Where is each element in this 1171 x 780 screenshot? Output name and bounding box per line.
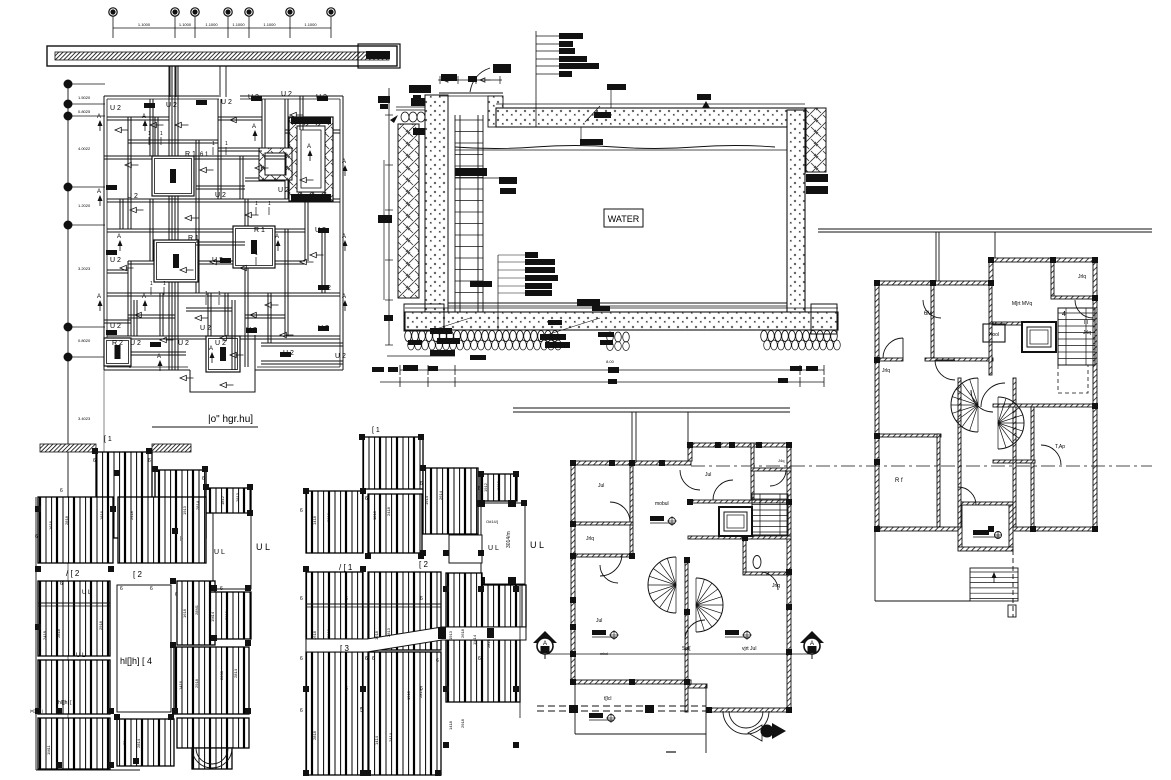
svg-text:U L: U L — [256, 542, 270, 552]
svg-text:1: 1 — [212, 141, 215, 147]
svg-text:R 1: R 1 — [188, 235, 199, 242]
svg-text:6: 6 — [420, 686, 423, 692]
svg-text:0.8020: 0.8020 — [78, 338, 91, 343]
svg-text:1: 1 — [148, 131, 151, 137]
svg-text:vjrt Jul: vjrt Jul — [742, 646, 756, 652]
svg-text:M[rt MVq: M[rt MVq — [1012, 301, 1032, 307]
svg-text:mobul: mobul — [655, 501, 669, 507]
svg-text:I·I: I·I — [1084, 320, 1088, 326]
svg-text:6: 6 — [436, 658, 439, 664]
svg-text:R 2: R 2 — [112, 340, 123, 347]
svg-text:U 2: U 2 — [127, 193, 138, 200]
svg-text:A: A — [252, 124, 256, 130]
svg-text:mbd: mbd — [600, 651, 608, 656]
svg-text:1: 1 — [150, 281, 153, 287]
svg-text:1618: 1618 — [182, 608, 187, 618]
svg-text:|o" hgr.hu]: |o" hgr.hu] — [208, 414, 253, 425]
svg-text:O#14/]: O#14/] — [486, 519, 498, 524]
svg-text:[ 1: [ 1 — [104, 436, 112, 443]
svg-text:1.1000: 1.1000 — [179, 22, 192, 27]
svg-text:2918: 2918 — [194, 678, 199, 688]
svg-text:A: A — [275, 234, 279, 240]
svg-text:2813: 2813 — [224, 610, 229, 620]
svg-text:2814: 2814 — [136, 738, 141, 748]
svg-text:8.00: 8.00 — [606, 359, 615, 364]
svg-text:6: 6 — [300, 656, 303, 662]
svg-text:U L: U L — [82, 590, 92, 596]
svg-text:A: A — [342, 234, 346, 240]
svg-text:U 2: U 2 — [110, 257, 121, 264]
svg-text:1: 1 — [255, 251, 258, 257]
svg-text:|n[]h| [ |: |n[]h| [ | — [30, 708, 43, 713]
svg-text:Sql[: Sql[ — [682, 646, 691, 652]
svg-text:A: A — [209, 346, 213, 352]
svg-text:A: A — [117, 234, 121, 240]
svg-text:28en: 28en — [122, 736, 127, 745]
svg-text:2818: 2818 — [326, 512, 331, 522]
svg-text:1418: 1418 — [312, 515, 317, 525]
svg-text:6 1: 6 1 — [200, 152, 209, 158]
svg-text:A: A — [342, 159, 346, 165]
svg-text:1816: 1816 — [99, 510, 104, 520]
svg-text:6: 6 — [365, 656, 368, 662]
svg-text:6: 6 — [150, 586, 153, 592]
svg-text:A: A — [307, 144, 311, 150]
svg-text:1: 1 — [268, 201, 271, 207]
svg-text:1: 1 — [163, 281, 166, 287]
svg-text:2813: 2813 — [386, 627, 391, 637]
svg-text:U 2: U 2 — [178, 340, 189, 347]
svg-text:1912: 1912 — [483, 482, 488, 492]
svg-text:2418: 2418 — [129, 510, 134, 520]
svg-text:1914: 1914 — [424, 495, 429, 505]
svg-text:U 2: U 2 — [110, 105, 121, 112]
svg-text:1616: 1616 — [48, 520, 53, 530]
svg-text:2813: 2813 — [235, 492, 240, 502]
svg-text:U L: U L — [488, 545, 499, 552]
svg-text:6: 6 — [345, 596, 348, 602]
svg-text:2813: 2813 — [486, 638, 491, 648]
svg-text:A: A — [97, 114, 101, 120]
svg-text:hl[]h] [ 4: hl[]h] [ 4 — [120, 656, 152, 666]
svg-text:[ 3: [ 3 — [340, 644, 349, 653]
svg-text:6: 6 — [60, 488, 63, 494]
svg-text:1M11: 1M11 — [46, 745, 51, 755]
svg-text:U L: U L — [530, 540, 544, 550]
svg-text:1913: 1913 — [448, 630, 453, 640]
svg-text:Jrlq: Jrlq — [586, 536, 594, 542]
svg-text:6: 6 — [93, 458, 96, 464]
svg-text:3.2023: 3.2023 — [78, 266, 91, 271]
svg-text:[ 1: [ 1 — [372, 427, 380, 434]
svg-text:U 2: U 2 — [130, 340, 141, 347]
svg-text:6: 6 — [175, 592, 178, 598]
svg-text:1: 1 — [160, 131, 163, 137]
svg-text:A: A — [342, 294, 346, 300]
svg-text:U 2: U 2 — [200, 325, 211, 332]
svg-text:2618: 2618 — [460, 628, 465, 638]
svg-text:1M14: 1M14 — [472, 634, 477, 645]
svg-text:2918: 2918 — [98, 620, 103, 630]
svg-text:A: A — [142, 114, 146, 120]
svg-text:6: 6 — [202, 476, 205, 482]
svg-text:T,Ap: T,Ap — [1055, 444, 1065, 450]
svg-text:1618: 1618 — [312, 630, 317, 640]
svg-text:Jul: Jul — [596, 618, 602, 624]
svg-text:2818: 2818 — [312, 730, 317, 740]
svg-text:Jrlq: Jrlq — [772, 583, 780, 589]
svg-text:A: A — [97, 294, 101, 300]
svg-text:1: 1 — [255, 201, 258, 207]
svg-text:[ 2: [ 2 — [133, 570, 142, 579]
svg-text:U 2: U 2 — [110, 323, 121, 330]
svg-text:U L: U L — [76, 653, 86, 659]
svg-text:2414: 2414 — [388, 732, 393, 742]
svg-text:1.1000: 1.1000 — [205, 22, 218, 27]
svg-text:2230: 2230 — [219, 670, 224, 680]
svg-text:6: 6 — [300, 508, 303, 514]
svg-text:6: 6 — [35, 534, 38, 540]
svg-text:|-: |- — [180, 536, 183, 542]
svg-text:6: 6 — [148, 458, 151, 464]
svg-text:2418: 2418 — [386, 506, 391, 516]
svg-text:1.1000: 1.1000 — [232, 22, 245, 27]
svg-text:6: 6 — [220, 586, 223, 592]
svg-text:5: 5 — [360, 707, 364, 714]
svg-text:1.1000: 1.1000 — [138, 22, 151, 27]
svg-text:2814: 2814 — [233, 668, 238, 678]
svg-text:1915: 1915 — [406, 690, 411, 700]
svg-text:6: 6 — [420, 596, 423, 602]
svg-text:U L: U L — [214, 549, 225, 556]
svg-text:6M: 6M — [924, 311, 932, 317]
svg-text:J4q: J4q — [778, 458, 784, 463]
svg-text:U 2: U 2 — [166, 102, 177, 109]
svg-text:2818: 2818 — [56, 628, 61, 638]
svg-text:Xool: Xool — [989, 332, 999, 338]
svg-text:U 2: U 2 — [221, 99, 232, 106]
svg-text:R 1: R 1 — [254, 227, 265, 234]
svg-text:6: 6 — [420, 481, 423, 487]
svg-text:WATER: WATER — [608, 214, 640, 224]
svg-text:/ [ 1: / [ 1 — [339, 563, 353, 572]
svg-text:U 2: U 2 — [281, 91, 292, 98]
svg-text:A: A — [97, 189, 101, 195]
svg-text:R 1: R 1 — [185, 151, 196, 158]
svg-text:R f: R f — [895, 478, 903, 484]
svg-text:6: 6 — [478, 656, 481, 662]
svg-text:1812: 1812 — [220, 495, 225, 505]
svg-text:0.8025: 0.8025 — [78, 109, 91, 114]
svg-text:1.2020: 1.2020 — [78, 203, 91, 208]
svg-text:1.1000: 1.1000 — [263, 22, 276, 27]
svg-text:2818: 2818 — [64, 515, 69, 525]
svg-text:4: 4 — [1062, 311, 1066, 318]
svg-text:6: 6 — [60, 581, 63, 587]
svg-text:1416: 1416 — [178, 680, 183, 690]
svg-text:2612: 2612 — [496, 480, 501, 490]
svg-text:6: 6 — [365, 496, 368, 502]
svg-text:2918: 2918 — [460, 718, 465, 728]
svg-text:2918: 2918 — [326, 628, 331, 638]
svg-text:3014/m: 3014/m — [506, 531, 512, 548]
svg-text:A: A — [142, 294, 146, 300]
svg-text:Jrlq: Jrlq — [1083, 330, 1091, 336]
svg-text:1913: 1913 — [182, 505, 187, 515]
svg-text:Jrlq: Jrlq — [882, 368, 890, 374]
svg-text:U 2: U 2 — [278, 187, 289, 194]
svg-text:1418: 1418 — [448, 720, 453, 730]
svg-text:6: 6 — [478, 486, 481, 492]
svg-text:1414: 1414 — [374, 735, 379, 745]
svg-text:Jrlq: Jrlq — [1078, 274, 1086, 280]
svg-text:2418: 2418 — [42, 630, 47, 640]
svg-text:3.4023: 3.4023 — [78, 416, 91, 421]
svg-text:1M14: 1M14 — [210, 611, 215, 622]
svg-text:6: 6 — [345, 686, 348, 692]
svg-text:4.0022: 4.0022 — [78, 146, 91, 151]
svg-text:/ [ 2: / [ 2 — [66, 569, 80, 578]
svg-text:1: 1 — [205, 291, 208, 297]
svg-text:[ 2: [ 2 — [419, 560, 428, 569]
svg-text:1.5020: 1.5020 — [78, 95, 91, 100]
svg-text:1.1000: 1.1000 — [304, 22, 317, 27]
svg-text:1: 1 — [225, 141, 228, 147]
svg-text:1818: 1818 — [372, 510, 377, 520]
svg-text:6: 6 — [300, 596, 303, 602]
svg-text:2814: 2814 — [195, 500, 200, 510]
svg-text:1: 1 — [218, 291, 221, 297]
svg-text:U 2: U 2 — [215, 340, 226, 347]
svg-text:U 2: U 2 — [335, 353, 346, 360]
svg-text:hl[]h| [: hl[]h| [ — [58, 700, 72, 706]
svg-text:6: 6 — [300, 708, 303, 714]
svg-text:Jul: Jul — [598, 483, 604, 489]
svg-text:6: 6 — [120, 586, 123, 592]
svg-text:2614: 2614 — [438, 490, 443, 500]
svg-text:1918: 1918 — [374, 630, 379, 640]
svg-text:28M1: 28M1 — [194, 604, 199, 615]
svg-text:Jul: Jul — [705, 472, 711, 478]
svg-text:6: 6 — [372, 656, 375, 662]
svg-text:U 2: U 2 — [215, 192, 226, 199]
svg-text:t[lcl: t[lcl — [604, 696, 612, 702]
